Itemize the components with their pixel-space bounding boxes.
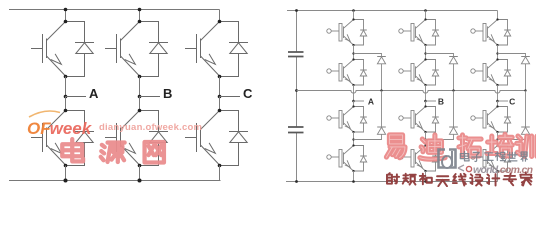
wire: node C to lower switch: [219, 97, 221, 111]
clamp diode upper leg B: [449, 57, 458, 64]
svg-text:B: B: [438, 96, 444, 106]
wire: negative DC bus (bottom rail, left circuit): [9, 180, 221, 182]
junction: leg A on top rail: [64, 8, 68, 12]
junction: upper clamp on neutral: [524, 89, 526, 91]
junction: leg B on bottom rail: [424, 180, 427, 183]
wire: node B to Q3: [425, 101, 427, 107]
wire: upper clamp diode to neutral: [525, 64, 527, 91]
node B (NPC output): [424, 100, 427, 103]
IGBT Q2 leg C (inner upper) with freewheel diode: [471, 58, 511, 86]
wire: leg B Q1-Q2 link: [425, 45, 427, 60]
watermark: edatop big characters (pink outlined): [386, 135, 405, 158]
IGBT Q4 leg C (outer lower) with freewheel diode: [471, 144, 511, 172]
junction: leg A on top rail: [352, 9, 355, 12]
wire: leg C lower emitter to bottom rail: [219, 166, 221, 181]
IGBT Q3 leg B (inner lower) with freewheel diode: [399, 105, 439, 133]
wire: leg B Q4 emitter to bottom rail: [425, 171, 427, 182]
svg-text:C: C: [509, 96, 515, 106]
wire: neutral to lower clamp diode: [381, 91, 383, 128]
wire: leg A Q3-Q4 link: [353, 132, 355, 146]
wire: leg B upper emitter to output node: [139, 77, 141, 97]
junction: upper clamp on neutral: [380, 89, 382, 91]
wire: leg C Q3-Q4 link: [497, 132, 499, 146]
wire: leg B lower emitter to bottom rail: [139, 166, 141, 181]
wire: upper clamp diode to neutral: [381, 64, 383, 91]
IGBT Q2 leg A (inner upper) with freewheel diode: [327, 58, 367, 86]
junction: leg A on bottom rail: [64, 179, 68, 183]
node A (NPC output): [352, 100, 355, 103]
junction: leg B lower clamp tee: [424, 138, 426, 140]
wire: leg C drop from top rail: [497, 11, 499, 20]
wire: node A to Q3: [353, 101, 355, 107]
node A (left circuit output): [64, 95, 68, 99]
junction: leg A lower clamp tee: [352, 138, 354, 140]
wire: lower clamp branch to leg: [426, 134, 454, 139]
junction: leg B on bottom rail: [138, 179, 142, 183]
svg-text:A: A: [368, 96, 374, 106]
wire: DC-link capacitor rail: [296, 11, 298, 182]
IGBT Q1 leg C (outer upper) with freewheel diode: [471, 18, 511, 46]
wire: neutral midpoint bus with hops over the legs: [297, 91, 526, 94]
junction: cap rail / neutral bus: [295, 89, 298, 92]
clamp diode upper leg C: [521, 57, 530, 64]
wire: positive DC bus (top rail, right circuit): [287, 10, 498, 12]
IGBT Q3 leg C (inner lower) with freewheel diode: [471, 105, 511, 133]
wire: node A to lower switch: [65, 97, 67, 111]
wire: leg C top rail drop: [219, 10, 221, 22]
clamp diode upper leg A: [377, 57, 386, 64]
wire: negative DC bus (bottom rail, right circuit): [286, 181, 498, 183]
wire: leg A lower emitter to bottom rail: [65, 166, 67, 181]
IGBT Q1 leg B (outer upper) with freewheel diode: [399, 18, 439, 46]
wire: lower clamp branch to leg: [498, 134, 526, 139]
IGBT lower switch leg B with freewheel diode: [105, 109, 168, 168]
junction: leg A upper clamp tee: [352, 52, 354, 54]
IGBT Q1 leg A (outer upper) with freewheel diode: [327, 18, 367, 46]
watermark: dianyuan big characters (pink): [62, 139, 83, 161]
IGBT Q4 leg A (outer lower) with freewheel diode: [327, 144, 367, 172]
wire: leg B top rail drop: [139, 10, 141, 22]
svg-text:C: C: [243, 86, 253, 101]
junction: cap rail / bottom rail: [295, 180, 298, 183]
wire: neutral to lower clamp diode: [453, 91, 455, 128]
wire: neutral to lower clamp diode: [525, 91, 527, 128]
svg-text:A: A: [89, 86, 99, 101]
IGBT lower switch leg C with freewheel diode: [185, 109, 248, 168]
wire: leg C upper emitter to output node: [219, 77, 221, 97]
clamp diode lower leg A: [377, 127, 386, 134]
node B (left circuit output): [138, 95, 142, 99]
capacitor upper DC-link: [288, 52, 304, 57]
wire: leg C Q1-Q2 link: [497, 45, 499, 60]
clamp diode lower leg B: [449, 127, 458, 134]
node C (left circuit output): [218, 95, 222, 99]
watermark: rf antenna expert slogan (dark red): [387, 173, 399, 184]
junction: leg C upper clamp tee: [496, 52, 498, 54]
watermark: eeworld text (gray): [460, 151, 469, 160]
wire: leg B upper clamp branch: [426, 54, 454, 57]
junction: leg A on bottom rail: [352, 180, 355, 183]
wire: leg A upper emitter to output node: [65, 77, 67, 97]
wire: leg B Q3-Q4 link: [425, 132, 427, 146]
svg-text:B: B: [163, 86, 172, 101]
wire: leg A Q4 emitter to bottom rail: [353, 171, 355, 182]
IGBT Q3 leg A (inner lower) with freewheel diode: [327, 105, 367, 133]
wire: lower clamp branch to leg: [354, 134, 382, 139]
svg-text:OFweek: OFweek: [27, 119, 93, 138]
IGBT lower switch leg A with freewheel diode: [31, 109, 94, 168]
IGBT upper switch leg C with freewheel diode: [185, 20, 248, 79]
junction: cap rail / top rail: [295, 9, 298, 12]
junction: leg B on top rail: [138, 8, 142, 12]
clamp diode lower leg C: [521, 127, 530, 134]
junction: upper clamp on neutral: [452, 89, 454, 91]
wire: leg A top rail drop: [65, 10, 67, 22]
capacitor lower DC-link: [288, 127, 304, 133]
wire: node C to Q3: [497, 101, 499, 107]
wire: leg B Q2 emitter through neutral to output node: [425, 85, 427, 101]
IGBT upper switch leg B with freewheel diode: [105, 20, 168, 79]
watermark: eeworld url: [466, 166, 471, 171]
wire: node B to lower switch: [139, 97, 141, 111]
IGBT Q4 leg B (outer lower) with freewheel diode: [399, 144, 439, 172]
node C (NPC output): [496, 100, 499, 103]
junction: leg C lower clamp tee: [496, 138, 498, 140]
svg-text:dianyuan.ofweek.com: dianyuan.ofweek.com: [99, 122, 202, 133]
wire: leg A upper clamp branch: [354, 54, 382, 57]
IGBT upper switch leg A with freewheel diode: [31, 20, 94, 79]
wire: leg A drop from top rail: [353, 11, 355, 20]
wire: leg C Q4 emitter to bottom rail: [497, 171, 499, 182]
wire: leg A Q2 emitter through neutral to output node: [353, 85, 355, 101]
IGBT Q2 leg B (inner upper) with freewheel diode: [399, 58, 439, 86]
wire: leg A Q1-Q2 link: [353, 45, 355, 60]
watermark: OFweek swoosh: [29, 111, 60, 117]
wire: leg C Q2 emitter through neutral to output node: [497, 85, 499, 101]
wire: positive DC bus (top rail, left circuit): [9, 9, 220, 11]
junction: leg B on top rail: [424, 9, 427, 12]
watermark: eeworld logo (gray): [439, 150, 456, 168]
wire: upper clamp diode to neutral: [453, 64, 455, 91]
wire: leg B drop from top rail: [425, 11, 427, 20]
junction: leg B upper clamp tee: [424, 52, 426, 54]
wire: leg C upper clamp branch: [498, 54, 526, 57]
